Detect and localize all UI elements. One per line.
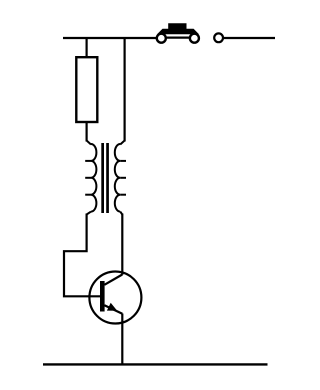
transformer T1 secondary winding (right) [115,141,126,215]
wire collector lead [121,214,123,275]
wire emitter lead [121,314,123,365]
resistor R1 [76,57,97,122]
transistor Q1 emitter stroke [104,305,122,314]
wire secondary top lead [123,37,125,142]
switch S1 left contact [157,34,166,43]
transistor Q1 emitter arrow [107,303,117,311]
switch S1 button actuator [157,23,199,34]
transistor Q1 collector stroke [104,275,122,285]
wire resistor top lead [85,37,87,58]
transformer T1 core [101,143,109,213]
transformer T1 primary winding (left) [85,141,96,215]
wire primary bottom to base loop [64,214,101,297]
switch S1 right contact [190,34,199,43]
wire top right lead [224,37,275,39]
transistor Q1 base bar [100,281,105,312]
node open terminal [214,33,223,42]
wire resistor bottom lead [85,122,87,142]
wire top supply rail [63,37,157,39]
transistor Q1 body circle [89,272,141,324]
wire bottom ground rail [43,363,268,365]
switch S1 movable contact bar [165,36,191,38]
